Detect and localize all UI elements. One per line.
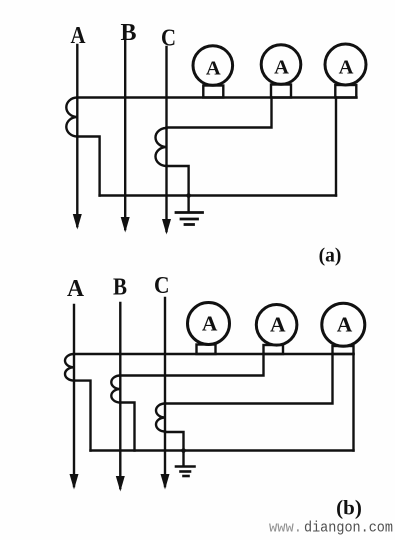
arrow line C (b) [161, 474, 170, 490]
svg-text:A: A [202, 312, 218, 336]
wire CT TA-c bottom lead to ground node (b) [165, 432, 184, 465]
ammeter PA3 (b) [322, 303, 365, 346]
arrow line C (a) [162, 219, 171, 235]
wire from CT TA-c top to PA2 left terminal (a) [167, 98, 272, 128]
junction dot ground node (b) [181, 448, 186, 453]
terminal base PA2 (b) [264, 345, 284, 354]
wire line C (a) [165, 47, 167, 231]
svg-text:B: B [121, 19, 137, 46]
junction dot ground node (a) [186, 193, 191, 198]
wire common return (a) [100, 194, 336, 196]
CT TA-b on line B (b) [111, 376, 120, 403]
wire line B (a) [124, 41, 126, 229]
wire from CT TA-b top to PA2 left terminal (b) [120, 354, 263, 376]
CT TA-c on line C (a) [156, 128, 167, 166]
terminal base PA3 (b) [333, 346, 354, 354]
arrow line B (b) [116, 476, 125, 492]
svg-text:(b): (b) [336, 496, 362, 520]
svg-text:A: A [337, 313, 353, 337]
wire CT TA-b bottom lead down (b) [120, 403, 134, 451]
ammeter PA1 (b) [188, 303, 230, 345]
wire line B (b) [119, 303, 121, 488]
svg-text:(a): (a) [319, 246, 342, 267]
wire PA3 left terminal down to return (a) [335, 98, 337, 196]
CT TA-a on line A (a) [66, 98, 77, 137]
wire CT TA-c bottom lead to ground node (a) [167, 166, 189, 211]
svg-text:A: A [206, 58, 221, 80]
svg-text:C: C [154, 273, 170, 299]
arrow line A (a) [73, 214, 82, 230]
svg-text:C: C [161, 25, 176, 52]
terminal base PA3 (a) [335, 85, 356, 98]
svg-text:A: A [274, 57, 289, 79]
wire line C (b) [164, 298, 166, 486]
wire from CT TA-c top to PA3 left terminal (b) [165, 354, 333, 404]
wire line A (a) [76, 45, 78, 226]
wire common return (b) [91, 449, 354, 451]
terminal base PA2 (a) [271, 85, 291, 98]
svg-text:A: A [67, 276, 85, 302]
ammeter PA2 (b) [256, 305, 297, 346]
CT TA-a on line A (b) [65, 354, 74, 381]
arrow line B (a) [121, 217, 130, 233]
wire CT TA-a bottom lead down (b) [74, 381, 91, 451]
ammeter PA2 (a) [261, 45, 301, 85]
ground (a) [176, 213, 203, 225]
arrow line A (b) [70, 474, 79, 490]
CT TA-c on line C (b) [156, 404, 165, 432]
wire bus from CT TA-a top to ammeter bases (a) [77, 96, 356, 98]
ground (b) [176, 467, 195, 477]
svg-text:B: B [113, 275, 127, 301]
ammeter PA1 (a) [193, 46, 233, 86]
wire bus from CT TA-a top to ammeter bases (b) [74, 353, 354, 355]
svg-text:www.: www. [269, 520, 302, 537]
svg-text:A: A [270, 313, 286, 337]
ammeter PA3 (a) [325, 44, 366, 85]
svg-text:A: A [339, 57, 354, 79]
terminal base PA1 (a) [203, 86, 223, 98]
svg-text:diangon.com: diangon.com [304, 520, 393, 537]
wire PA3 right terminal down to return (b) [352, 354, 354, 451]
wire CT TA-a bottom lead down (a) [77, 137, 99, 196]
wire line A (b) [73, 305, 75, 486]
terminal base PA1 (b) [197, 345, 216, 355]
